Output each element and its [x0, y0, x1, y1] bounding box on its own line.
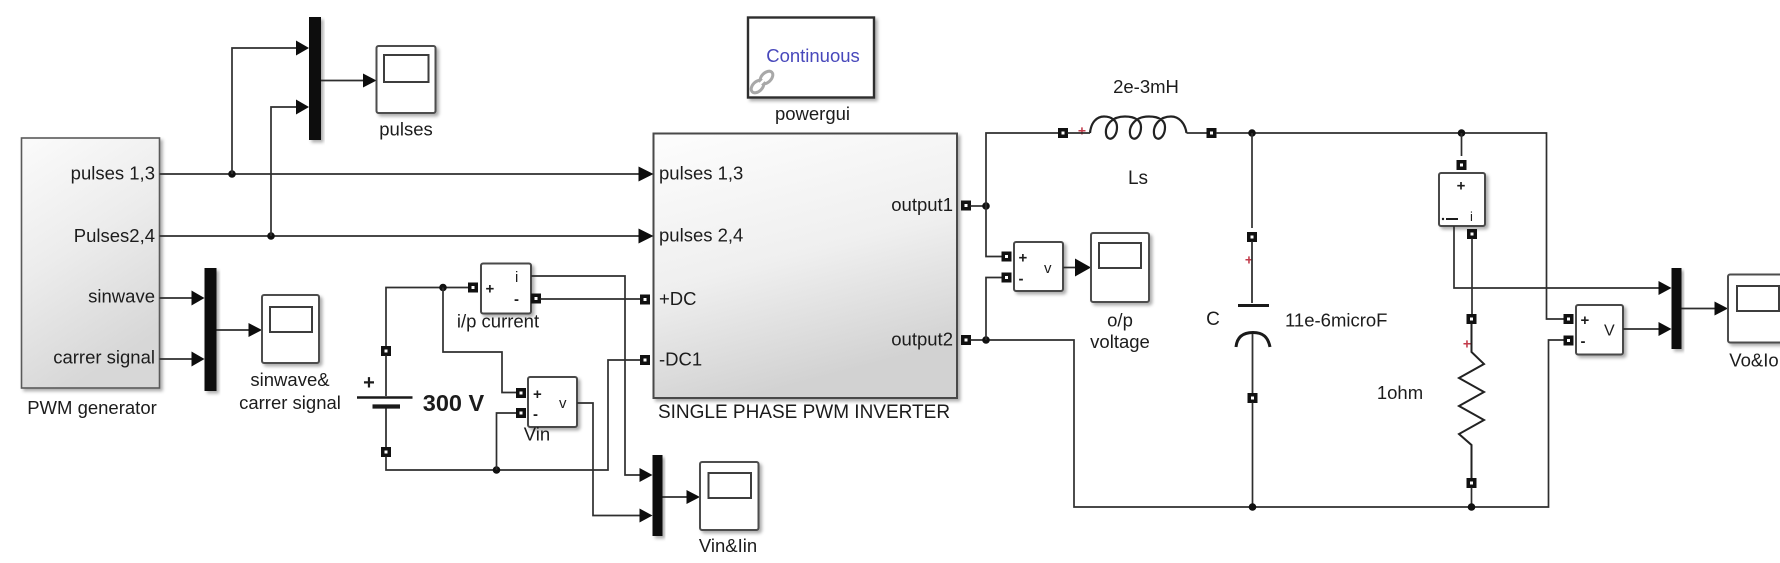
wire node B up to o/p voltage - input: [986, 278, 1002, 341]
wire U2 i signal to mux M3 input1: [531, 276, 640, 475]
node junction on pulses 1,3 wire: [228, 170, 236, 178]
svg-text:Vin: Vin: [524, 424, 550, 445]
node junction battery+ branch: [439, 284, 447, 292]
wire U3 v output to mux M3 input2: [577, 403, 640, 516]
node junction on Pulses2,4 wire: [267, 232, 275, 240]
wire battery negative rail to -DC1 riser: [386, 360, 640, 470]
port C1 bottom terminal: [1248, 393, 1258, 403]
svg-text:+: +: [1581, 312, 1590, 329]
port U6 + terminal: [1457, 160, 1467, 170]
wire battery positive up and right to i/p current: [386, 288, 469, 347]
svg-text:powergui: powergui: [775, 103, 850, 124]
wire C1 bottom terminal to rail: [1252, 403, 1254, 508]
arrow into scope o/p voltage: [1075, 259, 1091, 277]
arrow into M1 input2: [296, 100, 309, 115]
svg-text:v: v: [559, 395, 567, 412]
wire node C down to C1 top terminal: [1251, 133, 1253, 228]
svg-text:i: i: [1470, 209, 1473, 224]
svg-text:300 V: 300 V: [423, 390, 485, 416]
svg-text:+: +: [1019, 250, 1028, 267]
wire top rail Ls to v3 + corner: [1216, 133, 1564, 319]
svg-text:+: +: [486, 281, 495, 298]
battery long plate: [357, 396, 413, 399]
wire branch battery+ to Vin + input: [443, 288, 516, 393]
wire Pulses2,4 from U1 to inverter input2: [160, 235, 640, 237]
current measurement U2 i/p current: [468, 264, 541, 314]
node D junction Io tap: [1458, 129, 1466, 137]
capacitor plate top: [1238, 304, 1269, 307]
port R1 bottom terminal: [1467, 478, 1477, 488]
arrow into M2 input1: [192, 291, 205, 306]
svg-text:carrer signal: carrer signal: [239, 392, 341, 413]
port U7 + input: [1564, 314, 1574, 324]
arrow into scope pulses: [363, 74, 377, 88]
inductor coil: [1090, 117, 1187, 139]
svg-text:1ohm: 1ohm: [1377, 382, 1423, 403]
svg-text:sinwave&: sinwave&: [250, 369, 330, 390]
svg-text:SINGLE PHASE PWM INVERTER: SINGLE PHASE PWM INVERTER: [658, 402, 950, 423]
wire U5 v output to scope o/p voltage: [1063, 267, 1076, 269]
port U4 output2: [961, 335, 971, 345]
pin label i- (rotated): [1446, 218, 1458, 220]
arrow into M4 input2: [1659, 322, 1672, 336]
battery B1 300 V: [357, 346, 485, 457]
svg-text:+: +: [533, 386, 542, 403]
svg-text:pulses 1,3: pulses 1,3: [71, 163, 155, 184]
arrow into U4 input pulses 2,4: [639, 229, 654, 244]
arrow into scope Vin&Iin: [687, 490, 701, 504]
wire output2 to bottom rail corner: [971, 340, 1565, 507]
wire M3 output to scope Vin&Iin: [663, 496, 688, 498]
svg-text:Vin&Iin: Vin&Iin: [699, 535, 757, 556]
svg-text:-: -: [514, 291, 519, 308]
wire U2 - output to inverter +DC: [541, 298, 641, 300]
port U4 +DC input: [640, 295, 650, 305]
arrow into scope Vo&Io: [1715, 302, 1729, 316]
voltage measurement U5 o/p voltage: [1002, 242, 1064, 291]
svg-text:+: +: [1078, 123, 1086, 139]
wire M1 output to scope pulses: [321, 80, 364, 82]
svg-text:Vo&Io: Vo&Io: [1729, 350, 1778, 371]
svg-text:v: v: [1044, 260, 1052, 277]
svg-text:pulses: pulses: [379, 119, 432, 140]
wire node A down to o/p voltage + input: [986, 206, 1002, 257]
arrow into U4 input pulses 1,3: [639, 167, 654, 182]
svg-text:i: i: [515, 269, 518, 286]
port U3 - input: [516, 408, 526, 418]
svg-text:-: -: [1019, 271, 1024, 288]
arrow into M4 input1: [1659, 281, 1672, 295]
scope Vin&Iin: [700, 462, 759, 530]
svg-text:output2: output2: [891, 329, 953, 350]
powergui block: [748, 18, 874, 98]
port U5 + input: [1002, 252, 1012, 262]
wire coil left stub: [1068, 132, 1091, 134]
wire node A up to inductor Ls: [986, 133, 1059, 206]
port Ls left terminal: [1058, 128, 1068, 138]
wire node D down to U6 + terminal: [1461, 133, 1463, 156]
svg-text:o/p: o/p: [1107, 310, 1133, 331]
capacitor C1: [1236, 133, 1270, 507]
port U2 - output: [531, 294, 541, 304]
svg-text:+: +: [363, 372, 375, 394]
wire M2 output to scope sinwave&carrer: [217, 329, 250, 331]
wire C1 bottom plate to terminal: [1252, 334, 1254, 394]
node junction battery- branch: [493, 466, 501, 474]
port U2 + input: [468, 283, 478, 293]
mux M3: [653, 455, 663, 536]
mux M4: [1672, 268, 1682, 349]
scope sinwave & carrer signal: [262, 295, 319, 363]
arrow into M2 input2: [192, 352, 205, 367]
svg-text:Continuous: Continuous: [766, 45, 860, 66]
wire coil right stub: [1187, 132, 1208, 134]
svg-text:-: -: [533, 406, 538, 423]
svg-text:2e-3mH: 2e-3mH: [1113, 76, 1179, 97]
svg-text:PWM generator: PWM generator: [27, 397, 157, 418]
wire U7 V output to mux M4 input2: [1623, 328, 1659, 330]
svg-text:+: +: [1457, 178, 1466, 195]
wire output1 to node A: [971, 205, 987, 207]
svg-text:C: C: [1206, 309, 1220, 330]
node junction C1 on bottom rail: [1249, 503, 1257, 511]
svg-text:pulses 2,4: pulses 2,4: [659, 225, 743, 246]
resistor zigzag: [1459, 324, 1484, 479]
arrow into M1 input1: [296, 41, 309, 56]
wire carrer signal from U1 to mux M2 input2: [160, 358, 193, 360]
port C1 top terminal: [1247, 232, 1257, 242]
wire branch battery- to Vin - input: [497, 413, 517, 470]
svg-text:-: -: [1581, 333, 1586, 350]
wire sinwave from U1 to mux M2 input1: [160, 297, 193, 299]
port U3 + input: [516, 388, 526, 398]
wire U6 - terminal down to resistor R1: [1471, 239, 1473, 315]
arrow into scope sinwave&carrer: [249, 323, 263, 337]
port U4 output1: [961, 201, 971, 211]
scope pulses: [377, 46, 436, 113]
port battery + terminal: [381, 346, 391, 356]
port U4 -DC1 input: [640, 355, 650, 365]
svg-text:V: V: [1604, 323, 1615, 340]
voltage measurement U7 (output voltage): [1564, 305, 1624, 355]
wire battery + terminal to plate: [385, 356, 387, 397]
port U6 - terminal: [1467, 229, 1477, 239]
scope o/p voltage: [1091, 233, 1149, 302]
svg-text:+DC: +DC: [659, 288, 697, 309]
scope Vo&Io: [1728, 275, 1780, 343]
svg-text:-DC1: -DC1: [659, 349, 702, 370]
port Ls right terminal: [1207, 128, 1217, 138]
arrow into M3 input1: [640, 468, 653, 482]
svg-text:Pulses2,4: Pulses2,4: [74, 225, 155, 246]
arrow into M3 input2: [640, 509, 653, 523]
svg-text:voltage: voltage: [1090, 331, 1150, 352]
port R1 top terminal: [1467, 314, 1477, 324]
svg-text:+: +: [1463, 336, 1471, 352]
wire riser pulses 1,3 to mux M1 input1: [232, 48, 297, 174]
mux M1: [309, 17, 321, 140]
node C junction capacitor tap: [1248, 129, 1256, 137]
wire pulses 1,3 from U1 to inverter input1: [160, 173, 640, 175]
wire R1 bottom terminal to rail: [1471, 488, 1473, 508]
svg-text:sinwave: sinwave: [88, 286, 155, 307]
subsystem U4 SINGLE PHASE PWM INVERTER: [654, 134, 958, 399]
wire C1 terminal to plate: [1251, 242, 1253, 304]
node B junction on output2: [982, 336, 990, 344]
subsystem U1 PWM generator: [22, 138, 160, 388]
capacitor plate bottom (curved): [1236, 333, 1270, 348]
node junction R1 on bottom rail: [1468, 503, 1476, 511]
resistor R1 1ohm: [1459, 314, 1484, 507]
port battery - terminal: [381, 447, 391, 457]
wire battery plate to - terminal: [385, 409, 387, 448]
current measurement U6 (output current): [1439, 133, 1485, 239]
svg-text:carrer signal: carrer signal: [53, 347, 155, 368]
svg-text:Ls: Ls: [1128, 168, 1148, 189]
wire M4 output to scope Vo&Io: [1682, 308, 1716, 310]
svg-text:output1: output1: [891, 194, 953, 215]
mux M2: [205, 268, 217, 391]
battery short plate: [373, 404, 401, 408]
voltage measurement U3 Vin: [516, 377, 577, 427]
port U5 - input: [1002, 273, 1012, 283]
node A junction on output1: [982, 202, 990, 210]
inductor L1 Ls: [1058, 117, 1217, 139]
wire U6 i signal down and right to mux M4 input1: [1454, 226, 1659, 288]
svg-text:i/p current: i/p current: [457, 311, 539, 332]
wire riser Pulses2,4 to mux M1 input2: [271, 107, 297, 236]
svg-text:11e-6microF: 11e-6microF: [1285, 310, 1387, 331]
icon broken chain link: [749, 69, 775, 95]
svg-text:pulses 1,3: pulses 1,3: [659, 163, 743, 184]
port U7 - input: [1564, 336, 1574, 346]
